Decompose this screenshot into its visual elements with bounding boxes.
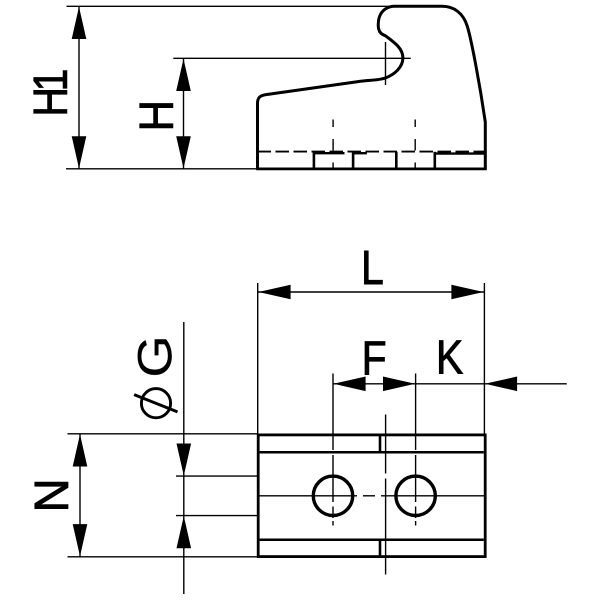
extension line F left (above hole 1) [332,374,334,434]
serration step shelf right [435,152,485,154]
hole 2 [396,476,435,515]
arrowhead N top [73,434,88,466]
dimension line N [79,434,81,557]
dimension line L [258,291,484,293]
serration hidden dashed line [258,151,486,153]
hole 2 vertical centerline [415,434,417,526]
dimension line G (vertical) [183,322,185,594]
dimension line H1 [78,6,80,169]
extension line bottom [66,168,258,170]
arrowhead G bottom (pointing up) [177,516,192,548]
step edge top band [379,435,382,452]
arrowhead H top [176,59,191,91]
serration step tick 2 [352,152,355,169]
part base line [256,167,487,170]
step edge bottom band [379,540,382,557]
arrowhead G top (pointing down) [177,444,192,476]
holes horizontal centerline [258,495,485,497]
side view hole centerline right [414,120,416,168]
extension line hole bottom tangent [176,515,258,517]
arrowhead F right [383,377,415,392]
extension line L right / K right [483,283,485,434]
block inner edge top [260,451,484,454]
hole 1 vertical centerline [332,434,334,526]
serration step tick 4 [433,152,436,169]
arrowhead N bottom [73,524,88,556]
arrowhead K (outside, pointing left) [485,377,517,392]
arrowhead H bottom [176,136,191,168]
extension line H / nose cross horizontal [173,57,410,59]
label N [35,482,68,508]
label L [364,251,382,284]
block outline [258,435,485,557]
part outline (clamp profile) [258,6,486,168]
diameter symbol circle [141,389,170,418]
label F [365,342,385,375]
block symmetry centerline [385,415,387,575]
label H1 [34,71,67,114]
extension line N top [68,433,258,435]
nose cross vertical [385,42,387,85]
extension line L left [257,283,259,434]
serration step shelf 1 [314,152,345,154]
arrowhead F left [333,377,365,392]
arrowhead L left [258,285,290,300]
serration step tick 3 [395,152,398,169]
extension line F right (above hole 2) [415,374,417,434]
extension line top (H1) [67,5,392,7]
label H [140,104,173,128]
dimension line H [183,58,185,169]
side view hole centerline left [332,120,334,168]
label diameter G [138,339,172,374]
serration step tick 1 [313,152,316,169]
serration step shelf 2 [353,152,367,154]
diameter symbol slash [134,395,177,412]
block inner edge bottom [260,539,484,542]
hole 1 [313,476,352,515]
label K [439,341,462,374]
arrowhead H1 top [72,7,87,39]
extension line hole top tangent [176,475,258,477]
dimension line F and K [333,383,567,385]
arrowhead L right [451,285,483,300]
extension line N bottom [68,556,258,558]
arrowhead H1 bottom [72,136,87,168]
